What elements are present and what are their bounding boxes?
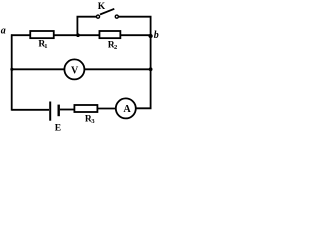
- junction dot: [76, 33, 80, 37]
- wire: [60, 109, 75, 111]
- label R3: [85, 115, 96, 126]
- svg-text:V: V: [71, 65, 79, 76]
- wire: [150, 35, 152, 69]
- wire: [12, 109, 49, 111]
- resistor R2: [99, 31, 120, 38]
- wire: [54, 34, 100, 36]
- wire: [119, 17, 151, 36]
- wire: [11, 34, 13, 110]
- switch K: [96, 9, 118, 18]
- resistor R1: [30, 31, 54, 38]
- svg-text:1: 1: [44, 43, 47, 50]
- svg-text:2: 2: [114, 44, 117, 51]
- label R2: [108, 40, 118, 51]
- battery E: [50, 102, 59, 121]
- svg-text:A: A: [123, 104, 131, 115]
- junction dot: [10, 68, 13, 71]
- label R1: [38, 39, 47, 50]
- svg-text:b: b: [154, 30, 159, 41]
- wire: [121, 34, 151, 36]
- svg-text:K: K: [98, 2, 106, 12]
- voltmeter V: [64, 59, 84, 79]
- wire: [98, 108, 117, 110]
- wire: [12, 68, 65, 70]
- ammeter A: [116, 98, 136, 118]
- wire: [11, 34, 31, 36]
- resistor R3: [74, 105, 97, 112]
- junction dot: [149, 67, 153, 71]
- wire: [136, 69, 150, 108]
- svg-text:a: a: [1, 26, 6, 37]
- node b: [148, 34, 152, 38]
- wire: [85, 68, 151, 70]
- wire: [77, 17, 96, 36]
- svg-text:E: E: [55, 124, 61, 132]
